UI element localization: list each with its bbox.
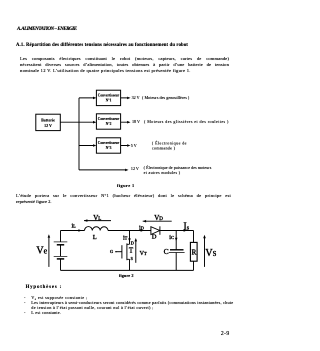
- svg-text:VD: VD: [154, 214, 163, 222]
- svg-text:S: S: [131, 256, 133, 261]
- svg-text:D: D: [131, 241, 134, 246]
- svg-text:VS: VS: [205, 248, 216, 259]
- svg-text:Convertisseur: Convertisseur: [98, 117, 120, 121]
- svg-text:32 V: 32 V: [132, 95, 140, 100]
- svg-text:N°2: N°2: [106, 122, 112, 126]
- svg-text:Convertisseur: Convertisseur: [98, 141, 120, 145]
- svg-text:commande ): commande ): [152, 146, 176, 151]
- svg-text:N°3: N°3: [106, 146, 112, 150]
- svg-text:12 V: 12 V: [131, 166, 139, 171]
- svg-text:Is: Is: [183, 221, 189, 232]
- svg-text:( Moteurs des genouillères ): ( Moteurs des genouillères ): [142, 95, 190, 100]
- svg-text:VL: VL: [93, 214, 101, 222]
- svg-text:VT: VT: [140, 251, 147, 257]
- svg-text:18 V: 18 V: [132, 119, 140, 124]
- svg-text:L: L: [93, 234, 97, 241]
- svg-text:R: R: [192, 249, 197, 257]
- svg-text:( Moteurs des glissières et de: ( Moteurs des glissières et des roulette…: [144, 119, 229, 124]
- svg-text:12 V: 12 V: [44, 123, 52, 128]
- svg-text:iC: iC: [169, 234, 174, 241]
- svg-text:C: C: [164, 247, 169, 256]
- svg-text:N°1: N°1: [106, 99, 112, 103]
- svg-text:D: D: [152, 234, 157, 241]
- svg-text:iL: iL: [72, 223, 77, 229]
- svg-text:Batterie: Batterie: [41, 117, 55, 122]
- svg-text:iT: iT: [123, 236, 128, 242]
- svg-text:Ve: Ve: [36, 246, 47, 257]
- svg-text:Convertisseur: Convertisseur: [98, 94, 120, 98]
- svg-text:5 V: 5 V: [131, 143, 137, 148]
- svg-text:T: T: [129, 246, 134, 254]
- svg-text:et autres modules ): et autres modules ): [144, 170, 181, 175]
- svg-text:G: G: [110, 249, 113, 254]
